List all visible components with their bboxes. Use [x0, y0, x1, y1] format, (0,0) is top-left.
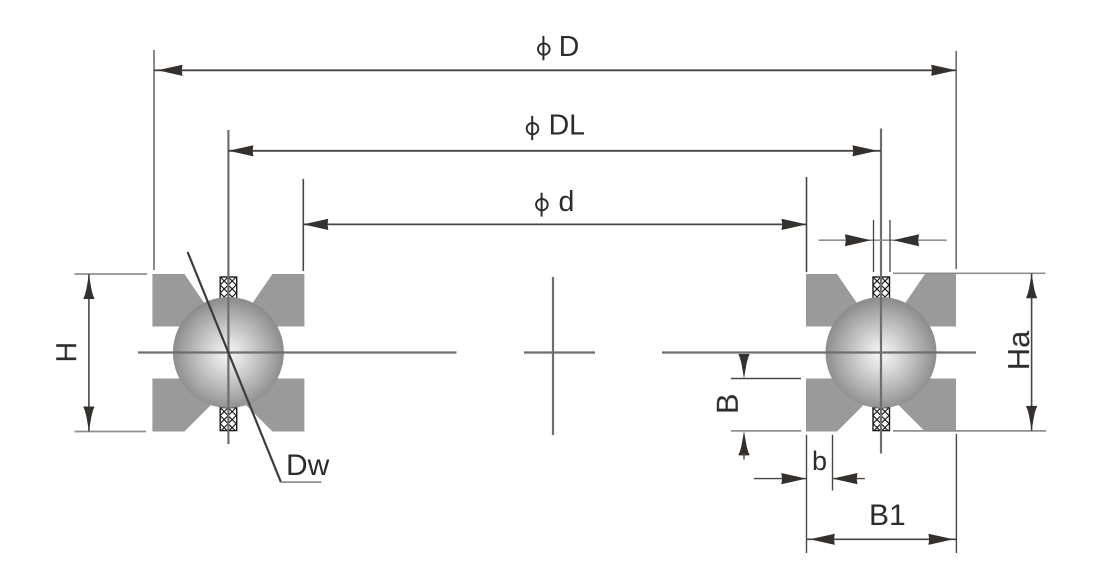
- Ha dimension line: [1031, 273, 1033, 431]
- right bearing top seal (cross-hatched): [857, 269, 905, 317]
- svg-text:H: H: [51, 342, 83, 363]
- right bearing block bottom-right: [899, 379, 956, 432]
- B1 extension line right: [955, 434, 957, 553]
- H extension line top: [74, 273, 147, 275]
- Ha arrow top: [1026, 274, 1037, 299]
- phi-DL label: [527, 109, 585, 141]
- B1 dimension line: [807, 538, 957, 540]
- H extension line bottom: [74, 431, 146, 433]
- right bearing block top-right: [903, 274, 956, 327]
- b extension line right: [832, 435, 834, 491]
- seal width arrow left: [845, 234, 871, 246]
- phi-d dimension line: [303, 223, 806, 225]
- left bearing outer-race block top-left: [152, 274, 206, 327]
- phi-D label: [538, 31, 579, 63]
- Dw leader diagonal line: [188, 252, 281, 482]
- B extension line top: [731, 378, 801, 380]
- right bearing block top-left: [806, 274, 859, 327]
- H arrow top: [84, 275, 95, 300]
- B1 extension line left: [806, 435, 808, 553]
- seal width small dimension line: [819, 239, 947, 241]
- left bearing top seal (cross-hatched): [204, 269, 252, 317]
- left bearing horizontal centerline: [138, 351, 457, 353]
- left bearing outer-race block bottom-right: [246, 379, 304, 432]
- Dw leader underline: [281, 481, 322, 483]
- right bearing vertical centerline: [880, 129, 882, 454]
- phi-d label: [536, 186, 574, 218]
- B dimension arrow top: [739, 354, 750, 379]
- H arrow bottom: [84, 407, 95, 432]
- seal width arrow right: [893, 234, 919, 246]
- B1 arrow right: [928, 534, 953, 545]
- svg-text:DL: DL: [549, 109, 585, 141]
- right bearing bottom seal (cross-hatched): [857, 400, 905, 448]
- phi-D dimension line: [154, 69, 956, 71]
- left bearing outer-race block top-right: [250, 274, 304, 327]
- svg-text:d: d: [559, 186, 575, 218]
- svg-text:Ha: Ha: [1001, 330, 1036, 370]
- svg-text:B1: B1: [869, 499, 906, 532]
- left bearing vertical centerline: [227, 130, 229, 444]
- svg-text:Dw: Dw: [286, 449, 330, 482]
- svg-text:D: D: [559, 31, 580, 63]
- b dimension arrow left: [754, 478, 806, 480]
- right bearing ball: [826, 297, 937, 408]
- Ha extension line bottom: [893, 430, 1046, 432]
- middle cross vertical centerline: [552, 277, 554, 435]
- right bearing block bottom-left: [806, 379, 863, 432]
- seal width extension line left: [873, 220, 875, 272]
- left bearing bottom seal (cross-hatched): [204, 400, 252, 448]
- phi-DL dimension line: [228, 150, 881, 152]
- B dimension arrow bottom: [739, 431, 750, 456]
- H dimension line: [88, 274, 90, 432]
- phi-D extension line right: [955, 51, 957, 269]
- phi-d extension line right: [806, 177, 808, 272]
- left bearing outer-race block bottom-left: [152, 379, 210, 432]
- phi-d extension line left: [302, 179, 304, 271]
- Ha arrow bottom: [1026, 406, 1037, 431]
- phi-D extension line left: [153, 50, 155, 270]
- B extension line bottom: [731, 430, 802, 432]
- left bearing ball: [173, 297, 284, 408]
- svg-text:B: B: [710, 393, 745, 414]
- right bearing horizontal centerline: [662, 351, 976, 353]
- seal width extension line right: [889, 220, 891, 272]
- Ha extension line top: [893, 272, 1046, 274]
- b dimension arrow right: [833, 478, 865, 480]
- middle cross horizontal centerline: [524, 351, 595, 353]
- svg-text:b: b: [812, 446, 827, 476]
- B1 arrow left: [810, 534, 835, 545]
